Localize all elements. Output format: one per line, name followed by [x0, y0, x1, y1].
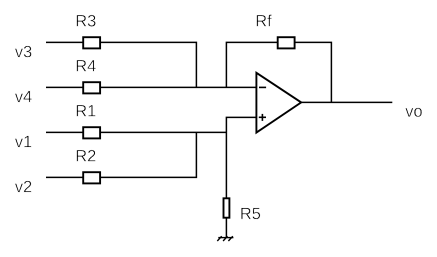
op-amp plus sign [259, 116, 266, 118]
label R4 [77, 60, 96, 71]
label Rf [257, 15, 272, 27]
label v2 [15, 181, 32, 193]
wire v1 horizontal [46, 131, 226, 133]
op-amp minus sign [259, 86, 266, 88]
wire v4 horizontal to op-amp inverting input [46, 86, 256, 88]
label v1 [15, 136, 32, 147]
resistor R5 (vertical) [224, 198, 230, 217]
wire Rf feedback loop [226, 42, 331, 102]
wire output horizontal [301, 101, 393, 103]
wire R5 bottom to ground [225, 218, 227, 238]
resistor R3 [83, 37, 100, 48]
label v4 [15, 91, 32, 102]
resistor Rf [278, 37, 295, 48]
label R3 [77, 15, 96, 27]
resistor R1 [83, 127, 100, 138]
label R2 [77, 150, 96, 162]
label R1 [77, 105, 96, 116]
ground [217, 236, 233, 241]
op-amp U1 [256, 73, 301, 133]
wire non-inverting input stub and vertical down to R5 [226, 117, 256, 198]
label vo [405, 108, 422, 117]
wire v2 horizontal and bus up to v1 wire [46, 132, 196, 177]
resistor R4 [83, 82, 100, 93]
resistor R2 [83, 172, 100, 183]
wire v3 horizontal and bus down to inverting node [46, 42, 196, 87]
label R5 [241, 208, 260, 220]
label v3 [15, 46, 32, 58]
